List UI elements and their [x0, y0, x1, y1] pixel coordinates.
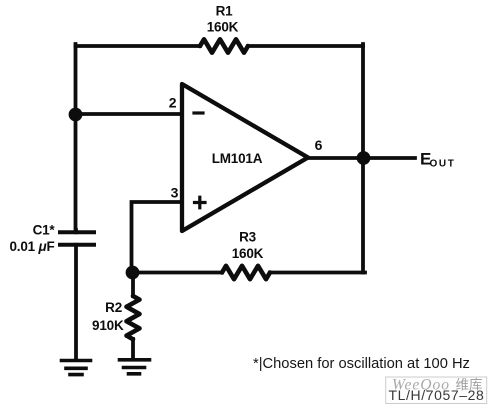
svg-text:160K: 160K — [207, 20, 239, 35]
resistor R1 — [200, 39, 248, 52]
wire output to Eout — [308, 156, 415, 160]
wire top horizontal (R1 branch) — [76, 44, 364, 48]
resistor R3 — [222, 266, 270, 279]
op-amp U1 LM101A — [182, 84, 308, 231]
svg-text:160K: 160K — [232, 246, 264, 261]
capacitor C1 — [60, 232, 94, 245]
node junction dot left (pin2 / C1) — [69, 108, 83, 122]
svg-text:0.01 μF: 0.01 μF — [9, 239, 54, 254]
svg-text:LM101A: LM101A — [212, 151, 263, 166]
wire R2 bottom lead — [131, 339, 135, 358]
plus sign pin3 — [195, 197, 206, 208]
wire R3 horizontal — [132, 271, 366, 275]
ground under C1 — [62, 361, 91, 375]
svg-text:R2: R2 — [105, 300, 122, 315]
wire non-inverting input (pin 3) — [132, 202, 183, 273]
wire C1 bottom lead — [74, 245, 78, 359]
wire right vertical — [361, 44, 365, 273]
ground under R2 — [120, 360, 150, 374]
wire left vertical — [74, 44, 78, 232]
watermark box — [386, 377, 487, 404]
wire C1 top lead — [74, 230, 78, 232]
svg-text:R3: R3 — [239, 230, 257, 245]
svg-text:C1*: C1* — [33, 223, 56, 238]
svg-text:R1: R1 — [216, 4, 234, 19]
resistor R2 — [127, 296, 140, 339]
svg-text:3: 3 — [171, 185, 179, 201]
minus sign pin2 — [194, 111, 203, 114]
svg-text:*|Chosen for oscillation at 10: *|Chosen for oscillation at 100 Hz — [253, 356, 470, 372]
wire R2 top lead — [131, 273, 135, 297]
svg-text:2: 2 — [169, 95, 177, 111]
svg-text:OUT: OUT — [430, 159, 456, 170]
svg-text:910K: 910K — [92, 318, 124, 333]
svg-text:TL/H/7057–28: TL/H/7057–28 — [389, 387, 485, 403]
node junction dot output — [357, 151, 371, 165]
wire inverting input (pin 2) — [76, 112, 183, 116]
svg-text:6: 6 — [315, 137, 323, 153]
node junction dot (R2/R3/pin3) — [126, 266, 140, 280]
